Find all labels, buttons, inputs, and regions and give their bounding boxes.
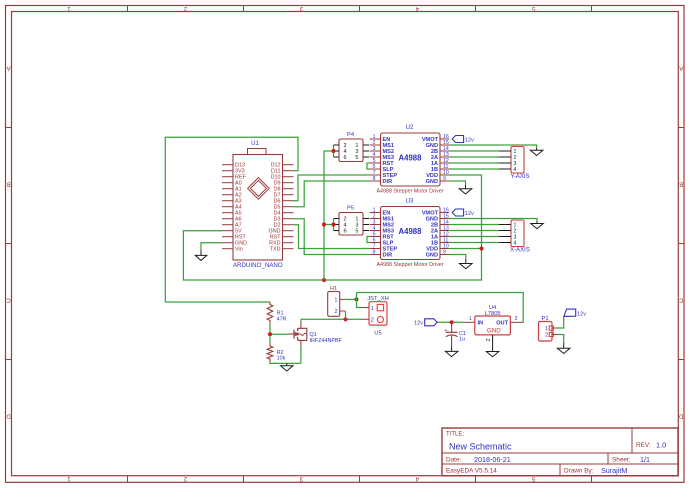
svg-text:EasyEDA V5.5.14: EasyEDA V5.5.14 [446,468,497,475]
svg-text:1.0: 1.0 [656,440,666,449]
svg-text:6: 6 [344,229,347,235]
svg-text:5: 5 [355,155,358,161]
svg-text:2: 2 [545,333,548,339]
svg-text:9: 9 [443,250,446,256]
svg-text:47R: 47R [277,316,287,322]
svg-text:Date:: Date: [446,457,461,464]
svg-text:1: 1 [545,326,548,332]
svg-text:REV:: REV: [636,442,651,449]
svg-text:P5: P5 [347,206,354,212]
svg-text:IN: IN [478,320,484,326]
svg-text:1: 1 [334,298,337,304]
svg-text:1: 1 [469,316,472,322]
svg-text:DIR: DIR [383,253,393,259]
svg-text:Sheet:: Sheet: [612,457,631,464]
svg-text:GND: GND [487,328,501,335]
svg-text:JST_XH: JST_XH [367,296,389,302]
svg-text:A: A [679,65,683,71]
svg-text:U3: U3 [406,198,414,204]
svg-text:Vin: Vin [235,247,243,253]
svg-text:12v: 12v [577,311,586,317]
svg-text:C: C [6,297,11,303]
svg-text:Drawn By:: Drawn By: [564,468,594,475]
svg-text:Y-AXIS: Y-AXIS [510,174,529,180]
svg-text:A4988 Stepper Motor Driver: A4988 Stepper Motor Driver [376,189,443,195]
svg-text:10k: 10k [277,356,286,362]
svg-text:A4988: A4988 [399,227,423,236]
svg-text:SurajitM: SurajitM [601,466,627,475]
svg-text:2: 2 [486,338,492,341]
svg-text:4: 4 [514,167,517,173]
svg-text:2: 2 [371,318,374,324]
svg-text:IRFZ44NPBF: IRFZ44NPBF [310,338,343,344]
svg-text:A: A [7,65,11,71]
svg-text:8: 8 [373,176,376,182]
svg-text:D: D [6,413,11,419]
svg-text:X-AXIS: X-AXIS [510,248,530,254]
svg-text:12v: 12v [465,137,474,143]
svg-text:P1: P1 [541,316,548,322]
svg-text:1: 1 [371,306,374,312]
svg-text:U1: U1 [251,141,259,147]
svg-text:6: 6 [344,155,347,161]
svg-text:P4: P4 [347,132,355,138]
svg-text:ARDUINO_NANO: ARDUINO_NANO [233,262,283,269]
svg-text:U2: U2 [406,125,414,131]
svg-text:2018-06-21: 2018-06-21 [474,455,511,464]
svg-text:9: 9 [443,176,446,182]
svg-text:L7805: L7805 [485,311,501,317]
svg-text:GND: GND [426,179,438,185]
svg-text:U5: U5 [374,330,381,336]
svg-text:12v: 12v [465,211,474,217]
svg-text:5: 5 [355,229,358,235]
svg-text:2: 2 [334,309,337,315]
svg-text:1u: 1u [459,337,465,343]
svg-text:GND: GND [426,253,438,259]
svg-text:4: 4 [514,241,517,247]
svg-text:New Schematic: New Schematic [449,442,512,452]
svg-text:OUT: OUT [496,320,508,326]
svg-text:+: + [444,328,448,334]
svg-text:H1: H1 [330,286,337,292]
svg-text:TXD: TXD [270,247,281,253]
svg-text:A4988: A4988 [399,154,423,163]
svg-text:8: 8 [373,250,376,256]
svg-text:D: D [678,413,683,419]
svg-text:A4988 Stepper Motor Driver: A4988 Stepper Motor Driver [376,262,443,268]
svg-text:TITLE:: TITLE: [446,431,464,437]
svg-text:DIR: DIR [383,179,393,185]
svg-text:C: C [678,297,683,303]
svg-text:B: B [679,181,683,187]
svg-text:12v: 12v [414,321,423,327]
svg-text:1/1: 1/1 [640,455,650,464]
svg-text:B: B [7,181,11,187]
svg-text:3: 3 [515,316,518,322]
